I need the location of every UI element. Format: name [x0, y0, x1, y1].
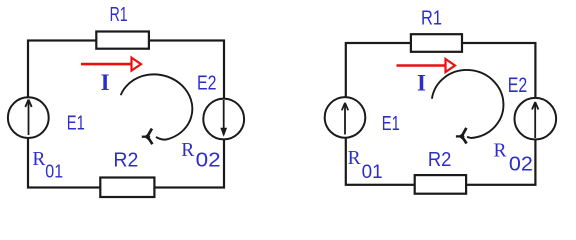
svg-text:R2: R2	[428, 149, 452, 171]
svg-text:01: 01	[362, 162, 383, 183]
svg-text:E2: E2	[197, 73, 217, 95]
svg-text:E1: E1	[382, 113, 400, 135]
svg-text:R: R	[494, 141, 507, 162]
svg-text:E1: E1	[67, 113, 85, 135]
svg-text:R2: R2	[113, 150, 138, 172]
svg-text:R: R	[32, 149, 45, 170]
svg-text:R1: R1	[110, 4, 128, 26]
svg-text:I: I	[101, 70, 110, 95]
svg-text:02: 02	[509, 154, 533, 176]
svg-text:I: I	[417, 71, 426, 96]
svg-text:02: 02	[196, 150, 221, 172]
svg-text:E2: E2	[508, 74, 528, 97]
svg-text:R: R	[348, 148, 361, 169]
svg-text:01: 01	[45, 161, 63, 181]
svg-text:R: R	[181, 140, 194, 161]
svg-text:R1: R1	[421, 8, 442, 30]
